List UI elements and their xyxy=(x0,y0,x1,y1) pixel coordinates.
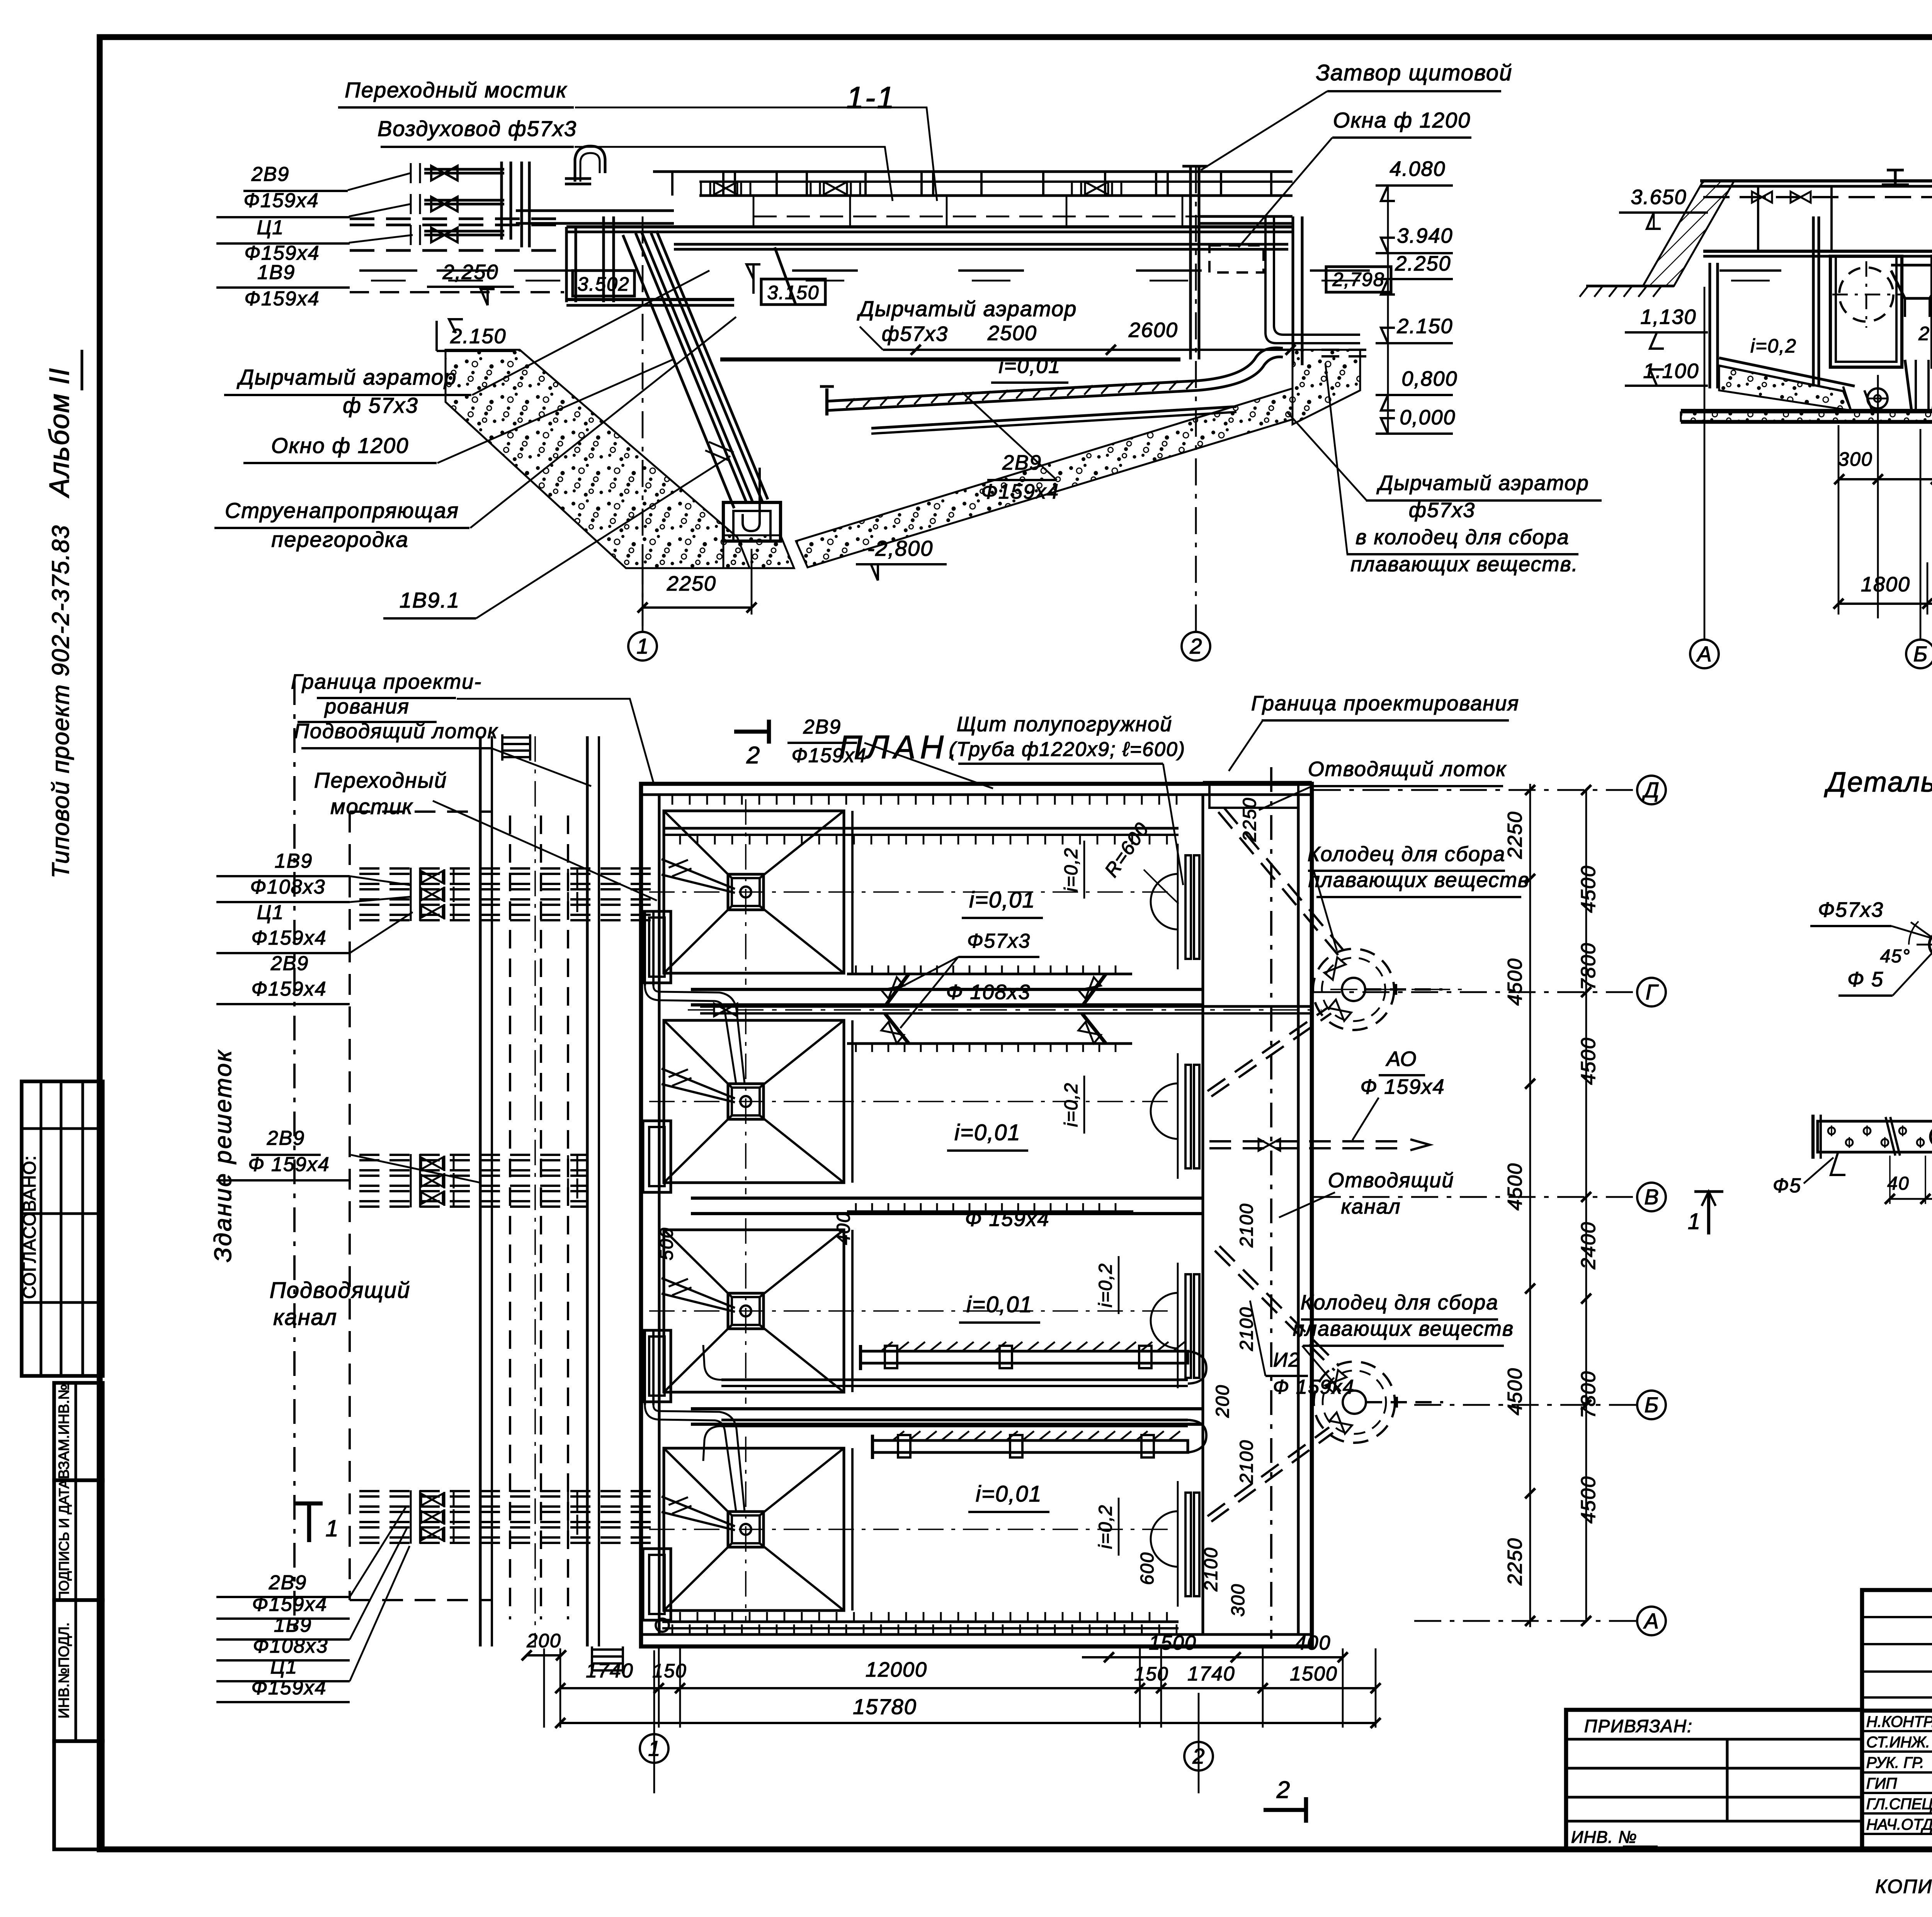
svg-text:2100: 2100 xyxy=(1201,1547,1221,1592)
extension lines bottom xyxy=(543,1648,545,1728)
left basin wall xyxy=(1708,263,1711,388)
dashed window rect xyxy=(1209,245,1264,272)
deck joint lines xyxy=(753,196,755,227)
concrete stipple underfloor band xyxy=(796,388,1293,567)
manifold risers xyxy=(500,162,503,240)
svg-text:3.150: 3.150 xyxy=(767,282,819,303)
axis circle А xyxy=(1690,640,1719,668)
dash-dot design boundary left xyxy=(293,680,296,1639)
bar feet xyxy=(1831,1152,1845,1175)
inlet valve manifold xyxy=(411,163,420,183)
funnel center box xyxy=(728,1512,764,1547)
leader переходный мостик plan xyxy=(433,801,657,901)
svg-text:Переходный: Переходный xyxy=(314,768,447,792)
svg-text:Ф5: Ф5 xyxy=(1773,1175,1801,1197)
section mark 2 top xyxy=(734,730,769,734)
polupogruzhnoy shields 2-2 xyxy=(1812,216,1815,386)
walkway deck top rail xyxy=(653,170,1293,173)
svg-text:600: 600 xyxy=(1137,1552,1158,1585)
svg-text:300: 300 xyxy=(1228,1583,1248,1617)
svg-text:150: 150 xyxy=(1134,1663,1168,1685)
svg-text:2.150: 2.150 xyxy=(450,325,506,348)
svg-text:i=0,01: i=0,01 xyxy=(954,1120,1021,1145)
right outlet box walls xyxy=(1291,216,1294,365)
funnel centerlines xyxy=(649,1310,1175,1312)
svg-text:7800: 7800 xyxy=(1577,942,1600,990)
svg-text:i=0,2: i=0,2 xyxy=(1061,1082,1082,1127)
svg-text:2,250: 2,250 xyxy=(442,260,498,284)
svg-text:1В9: 1В9 xyxy=(257,261,296,284)
water dashes right box xyxy=(1310,269,1370,272)
svg-text:2250: 2250 xyxy=(1504,811,1526,859)
rollers xyxy=(1867,388,1888,409)
svg-text:ИНВ. №: ИНВ. № xyxy=(1571,1828,1637,1847)
concrete stipple left wedge xyxy=(446,350,750,568)
svg-text:канал: канал xyxy=(1341,1195,1401,1218)
axis circle Б xyxy=(1906,640,1932,668)
pipe bundles left xyxy=(359,873,659,875)
bottom inner pipe xyxy=(662,1620,1179,1623)
svg-text:0,800: 0,800 xyxy=(1401,367,1458,390)
wall ticks bottom xyxy=(672,1624,673,1634)
deck pipes and valves 2-2 xyxy=(1703,196,1932,198)
svg-text:Граница проектирования: Граница проектирования xyxy=(1251,692,1519,715)
left stamp box ВЗАМ.ИНВ.№ xyxy=(54,1383,103,1480)
railing posts xyxy=(671,172,673,196)
plan axis circle 1 xyxy=(653,1650,655,1793)
wall crossing flanges xyxy=(568,1491,577,1512)
svg-text:плавающих веществ: плавающих веществ xyxy=(1293,1317,1514,1340)
left stamp box empty xyxy=(54,1741,103,1849)
right outlet down pipe xyxy=(1265,216,1360,343)
elevation box 2,798 xyxy=(1326,267,1391,292)
svg-text:Дырчатый аэратор: Дырчатый аэратор xyxy=(1376,472,1589,495)
svg-text:4500: 4500 xyxy=(1504,1163,1526,1210)
svg-text:2.250: 2.250 xyxy=(1395,252,1451,275)
svg-text:2500: 2500 xyxy=(987,322,1037,345)
svg-text:2400: 2400 xyxy=(1577,1221,1600,1270)
stipple left slope 1 xyxy=(1719,366,1851,410)
svg-text:1: 1 xyxy=(648,1736,660,1760)
brush pipe ch4 xyxy=(872,1440,1188,1452)
svg-text:200: 200 xyxy=(1918,323,1932,344)
feed pipe into funnel xyxy=(662,1278,735,1308)
walkway deck line 2 xyxy=(699,194,1293,197)
leader to aerator xyxy=(472,271,709,395)
valve cluster xyxy=(411,1154,420,1173)
inlet channel left wall xyxy=(565,227,568,302)
outlet chute diagonals to well 1 xyxy=(1218,812,1338,955)
svg-text:1800: 1800 xyxy=(1861,573,1910,596)
leader to air duct xyxy=(575,147,893,201)
deck mid line xyxy=(699,180,1293,183)
svg-text:Ф57х3: Ф57х3 xyxy=(967,930,1031,952)
svg-text:Колодец для сбора: Колодец для сбора xyxy=(1301,1291,1499,1314)
svg-text:1500: 1500 xyxy=(1149,1632,1197,1654)
svg-text:4500: 4500 xyxy=(1577,865,1600,913)
svg-text:i=0,01: i=0,01 xyxy=(976,1481,1042,1507)
svg-text:1-1: 1-1 xyxy=(846,80,896,115)
svg-text:Ф159х4: Ф159х4 xyxy=(791,744,867,767)
axis circle Г xyxy=(1637,978,1666,1006)
funnel centerlines xyxy=(649,1101,1175,1102)
leader to walkway xyxy=(575,107,937,201)
svg-text:40: 40 xyxy=(1887,1173,1909,1194)
svg-text:1,130: 1,130 xyxy=(1640,305,1696,329)
central pier xyxy=(1905,360,1932,410)
valve cluster xyxy=(411,1490,420,1509)
feed pipe into funnel xyxy=(662,1496,735,1526)
svg-text:2100: 2100 xyxy=(1236,1307,1257,1352)
axis circle 1 xyxy=(628,632,657,661)
mostik slab left extension xyxy=(516,209,674,212)
dim chain vertical 2 xyxy=(1585,790,1587,1621)
aerator foot pipe ch1 xyxy=(847,972,1132,975)
svg-text:2В9: 2В9 xyxy=(251,163,290,186)
svg-text:Ф159х4: Ф159х4 xyxy=(251,978,327,1000)
water level dashes left xyxy=(359,269,417,272)
svg-text:Струенапропряющая: Струенапропряющая xyxy=(225,498,459,523)
svg-text:300: 300 xyxy=(1838,448,1872,470)
axis lines horizontal right xyxy=(1314,789,1637,791)
aerator pipe cross-section xyxy=(1929,932,1932,957)
funnel center box xyxy=(728,1084,764,1119)
riser tee symbols xyxy=(1882,183,1909,186)
axis lines 2-2 xyxy=(1704,287,1706,640)
ladder symbol top xyxy=(502,736,530,739)
svg-text:ГЛ.СПЕЦ.: ГЛ.СПЕЦ. xyxy=(1866,1796,1932,1813)
leader подводящий лоток xyxy=(492,748,591,786)
chute slab lines xyxy=(623,235,734,508)
svg-text:мостик: мостик xyxy=(330,794,413,819)
svg-text:ПОДПИСЬ И ДАТА: ПОДПИСЬ И ДАТА xyxy=(56,1479,72,1601)
aerator head pipe ch2 xyxy=(847,1042,1132,1045)
axis circle Б xyxy=(1637,1391,1666,1419)
basin outer walls xyxy=(641,784,1312,1646)
deck slab 2-2 xyxy=(1700,179,1932,182)
break marks on bar xyxy=(1886,1117,1895,1156)
svg-text:i=0,01: i=0,01 xyxy=(966,1292,1033,1317)
svg-text:1: 1 xyxy=(1688,1209,1701,1234)
descending chute pipes xyxy=(636,233,747,504)
svg-text:ГИП: ГИП xyxy=(1866,1775,1897,1792)
svg-text:1В9: 1В9 xyxy=(274,1614,312,1636)
svg-text:2: 2 xyxy=(746,742,760,769)
svg-text:Дырчатый аэратор: Дырчатый аэратор xyxy=(857,296,1077,321)
svg-text:2: 2 xyxy=(1192,1744,1204,1768)
valve cluster xyxy=(411,868,420,886)
svg-text:3.502: 3.502 xyxy=(577,273,629,295)
svg-text:Деталь аэратора: Деталь аэратора xyxy=(1824,767,1932,798)
wall ticks top xyxy=(672,795,673,805)
title block: signature table xyxy=(1862,1590,1932,1849)
pipe АО xyxy=(1209,1147,1406,1149)
svg-text:СОГЛАСОВАНО:: СОГЛАСОВАНО: xyxy=(19,1155,39,1299)
svg-text:2В9: 2В9 xyxy=(270,952,309,975)
svg-text:Ц1: Ц1 xyxy=(257,901,284,924)
svg-text:12000: 12000 xyxy=(866,1658,927,1681)
svg-text:ПРИВЯЗАН:: ПРИВЯЗАН: xyxy=(1584,1716,1693,1736)
svg-text:в колодец для сбора: в колодец для сбора xyxy=(1355,526,1569,549)
U-bend pipe in sump xyxy=(743,468,760,531)
svg-text:2250: 2250 xyxy=(1504,1537,1526,1586)
floor pipe below xyxy=(871,407,1236,428)
left berm 1 xyxy=(1843,386,1872,410)
svg-text:канал: канал xyxy=(273,1305,337,1330)
mini ladder below basin xyxy=(592,1648,623,1651)
left stamp box ПОДПИСЬ И ДАТА xyxy=(54,1480,103,1600)
concrete stipple under sump xyxy=(723,535,794,568)
svg-text:Дырчатый аэратор: Дырчатый аэратор xyxy=(236,365,457,389)
dim chain vertical 1 xyxy=(1529,784,1531,1627)
section mark T1 xyxy=(296,1502,323,1506)
leader перегородка xyxy=(470,317,736,528)
svg-text:ИНВ.№ПОДЛ.: ИНВ.№ПОДЛ. xyxy=(56,1622,72,1719)
svg-text:Ф 108х3: Ф 108х3 xyxy=(946,981,1031,1004)
svg-text:1В9: 1В9 xyxy=(275,850,313,872)
svg-text:Ф 159х4: Ф 159х4 xyxy=(248,1153,330,1176)
svg-text:2100: 2100 xyxy=(1236,1203,1257,1248)
plan axis circle 2 xyxy=(1198,1693,1200,1793)
svg-text:Б: Б xyxy=(1645,1393,1658,1417)
inlet channel floor xyxy=(566,298,734,301)
floor left cap xyxy=(825,388,828,415)
water level marks basin xyxy=(792,269,858,272)
svg-text:i=0,2: i=0,2 xyxy=(1095,1263,1116,1307)
svg-text:Переходный мостик: Переходный мостик xyxy=(345,78,567,102)
svg-text:Ф108х3: Ф108х3 xyxy=(250,876,325,898)
hanging gate boxes with windows xyxy=(1830,256,1902,367)
svg-text:РУК. ГР.: РУК. ГР. xyxy=(1866,1754,1924,1771)
svg-text:Подводящий лоток: Подводящий лоток xyxy=(294,720,498,743)
svg-text:Ф159х4: Ф159х4 xyxy=(981,480,1059,503)
svg-text:200: 200 xyxy=(526,1630,561,1651)
svg-text:i=0,2: i=0,2 xyxy=(1750,335,1797,357)
svg-text:Здание решеток: Здание решеток xyxy=(210,1049,236,1262)
air main dash line xyxy=(753,216,1271,218)
45 deg arcs xyxy=(1909,921,1918,945)
svg-text:ВЗАМ.ИНВ.№: ВЗАМ.ИНВ.№ xyxy=(56,1384,72,1479)
svg-text:Затвор щитовой: Затвор щитовой xyxy=(1316,60,1513,85)
leader граница to basin xyxy=(457,699,654,784)
svg-text:Щит полупогружной: Щит полупогружной xyxy=(957,713,1172,736)
svg-text:7800: 7800 xyxy=(1577,1371,1600,1418)
svg-text:400: 400 xyxy=(1295,1632,1331,1654)
svg-text:2В9: 2В9 xyxy=(803,716,842,738)
concrete stipple right block xyxy=(1293,350,1360,424)
svg-text:ф57х3: ф57х3 xyxy=(882,322,948,346)
chute flange xyxy=(705,442,734,461)
svg-text:3.650: 3.650 xyxy=(1631,186,1687,209)
R=600 gates right side xyxy=(1151,874,1179,930)
svg-text:4500: 4500 xyxy=(1504,1367,1526,1415)
svg-text:Ц1: Ц1 xyxy=(270,1656,298,1678)
wall crossing flanges xyxy=(568,869,577,889)
channel divider walls xyxy=(691,988,1203,991)
wall crossing flanges xyxy=(568,1155,577,1175)
svg-text:4500: 4500 xyxy=(1577,1476,1600,1524)
svg-text:2.150: 2.150 xyxy=(1396,315,1453,338)
svg-text:Воздуховод ф57х3: Воздуховод ф57х3 xyxy=(378,116,577,141)
svg-text:А: А xyxy=(1643,1609,1658,1633)
svg-text:Г: Г xyxy=(1646,980,1659,1004)
left stamp box ИНВ.№ПОДЛ. xyxy=(54,1600,103,1741)
outlet dashed pipe to well xyxy=(1321,349,1376,351)
svg-text:ф 57х3: ф 57х3 xyxy=(343,393,418,417)
svg-text:Ф159х4: Ф159х4 xyxy=(244,288,320,310)
funnel center box xyxy=(728,1293,764,1329)
svg-text:Типовой проект 902-2-375.83: Типовой проект 902-2-375.83 xyxy=(48,524,74,878)
building dashed wall xyxy=(349,812,351,1600)
goose-neck vent pipe xyxy=(575,146,605,182)
axis circle А xyxy=(1637,1607,1666,1635)
svg-text:Ф159х4: Ф159х4 xyxy=(251,1677,327,1699)
svg-text:400: 400 xyxy=(833,1212,854,1245)
axis circle 2 xyxy=(1182,632,1210,661)
svg-text:1500: 1500 xyxy=(1290,1663,1338,1685)
right gate slot xyxy=(1189,166,1192,359)
svg-text:2600: 2600 xyxy=(1128,318,1178,342)
inlet pipes dashed xyxy=(350,217,565,220)
svg-text:рования: рования xyxy=(324,695,410,718)
svg-text:НАЧ.ОТД.: НАЧ.ОТД. xyxy=(1866,1816,1932,1833)
svg-text:Окна ф 1200: Окна ф 1200 xyxy=(1333,108,1471,132)
svg-text:i=0,2: i=0,2 xyxy=(1061,847,1082,892)
basin floor line xyxy=(720,358,1180,362)
svg-text:2: 2 xyxy=(1189,634,1202,658)
funnel center box xyxy=(728,874,764,910)
svg-text:1: 1 xyxy=(636,634,648,658)
deck joints xyxy=(1757,186,1759,251)
funnel between gate boxes 1 xyxy=(1891,271,1932,298)
svg-text:Ф 159х4: Ф 159х4 xyxy=(965,1207,1049,1231)
svg-text:Ф159х4: Ф159х4 xyxy=(243,189,319,212)
leader lines to manifold xyxy=(348,173,410,190)
svg-text:15780: 15780 xyxy=(853,1694,917,1719)
building double wall xyxy=(479,736,481,1646)
outlet diagonals to well 2 xyxy=(1215,1251,1335,1371)
axis line 2 xyxy=(1195,166,1197,632)
svg-text:0,000: 0,000 xyxy=(1400,406,1456,429)
right elevation stack xyxy=(1387,186,1389,434)
axis circle Д xyxy=(1637,776,1666,804)
svg-text:АО: АО xyxy=(1386,1047,1417,1071)
svg-text:И2: И2 xyxy=(1273,1349,1300,1371)
window dashed circles 2-2 xyxy=(1839,267,1893,322)
svg-text:В: В xyxy=(1644,1185,1658,1209)
elevation box 3.502 xyxy=(573,271,634,296)
left stamp table СОГЛАСОВАНО xyxy=(22,1081,103,1376)
svg-text:1740: 1740 xyxy=(1187,1663,1235,1685)
view arrow 1 left xyxy=(1707,1192,1710,1234)
svg-text:КОПИРОВАЛ: ЛОГИНОВА: КОПИРОВАЛ: ЛОГИНОВА xyxy=(1875,1876,1932,1897)
gate boxes on left wall xyxy=(643,911,671,983)
well 1 xyxy=(1313,949,1394,1030)
funnels with X diagonals xyxy=(664,811,844,973)
sump box xyxy=(723,502,781,541)
svg-text:4.080: 4.080 xyxy=(1389,157,1446,180)
svg-text:4500: 4500 xyxy=(1504,958,1526,1006)
dashed boundary line vertical in plan xyxy=(1270,767,1272,1639)
svg-text:Ф159х4: Ф159х4 xyxy=(252,1593,327,1616)
svg-text:i=0,01: i=0,01 xyxy=(969,887,1036,913)
svg-text:2: 2 xyxy=(1276,1777,1291,1803)
top outlet box xyxy=(1203,781,1312,783)
funnel centerlines xyxy=(649,891,1175,893)
svg-text:2250: 2250 xyxy=(667,572,716,595)
svg-text:Б: Б xyxy=(1913,642,1927,666)
central pipe Ф108х3 ch1-2 xyxy=(700,1005,1312,1008)
perforated sloped floor xyxy=(827,381,1198,401)
svg-text:Ц1: Ц1 xyxy=(257,216,284,239)
svg-text:1: 1 xyxy=(325,1515,339,1541)
svg-text:2В9: 2В9 xyxy=(1002,451,1042,474)
pipes running down the inlet channel xyxy=(509,815,511,1619)
svg-text:плавающих веществ.: плавающих веществ. xyxy=(1350,553,1578,576)
svg-text:Ф159х4: Ф159х4 xyxy=(251,927,327,949)
walkway slab xyxy=(566,225,1293,228)
svg-text:Д: Д xyxy=(1641,778,1659,802)
well 2 xyxy=(1314,1362,1395,1443)
svg-text:150: 150 xyxy=(652,1660,687,1682)
svg-text:i=0,2: i=0,2 xyxy=(1095,1504,1116,1549)
svg-text:2В9: 2В9 xyxy=(267,1127,305,1149)
axis line 1 xyxy=(642,216,644,632)
air main valves on deck xyxy=(714,182,737,195)
svg-text:(Труба ф1220х9; ℓ=600): (Труба ф1220х9; ℓ=600) xyxy=(949,738,1186,761)
svg-text:перегородка: перегородка xyxy=(271,527,408,552)
brush pipe ch3 xyxy=(861,1351,1188,1363)
svg-text:Подводящий: Подводящий xyxy=(270,1278,411,1303)
left bank hatch xyxy=(1643,181,1734,286)
svg-text:Ф108х3: Ф108х3 xyxy=(253,1635,328,1657)
svg-text:2100: 2100 xyxy=(1236,1440,1257,1485)
feed pipe into funnel xyxy=(662,1069,735,1098)
inlet channel right wall xyxy=(602,216,605,302)
svg-text:2250: 2250 xyxy=(1240,797,1260,842)
elevation box 3.150 xyxy=(761,279,825,305)
water level 2-2 xyxy=(1719,269,1781,272)
dim line aerator xyxy=(916,349,1291,351)
svg-text:Ф 159х4: Ф 159х4 xyxy=(1360,1075,1445,1098)
svg-text:А: А xyxy=(1696,642,1711,666)
svg-text:Отводящий: Отводящий xyxy=(1328,1169,1454,1192)
svg-text:Отводящий лоток: Отводящий лоток xyxy=(1308,758,1507,781)
svg-text:45°: 45° xyxy=(1880,946,1911,967)
branch diagonals with valves xyxy=(885,974,909,1006)
left basin floor slope 1 xyxy=(1719,358,1855,386)
svg-text:2В9: 2В9 xyxy=(269,1571,307,1594)
svg-text:Альбом II: Альбом II xyxy=(44,368,75,498)
svg-text:СТ.ИНЖ.: СТ.ИНЖ. xyxy=(1866,1734,1930,1751)
svg-text:500: 500 xyxy=(656,1227,677,1260)
holes row xyxy=(1828,1127,1835,1134)
П-loop pipes to even channels xyxy=(644,911,646,986)
svg-text:-2,800: -2,800 xyxy=(867,536,934,560)
svg-text:Колодец для сбора: Колодец для сбора xyxy=(1308,843,1506,866)
aerator bar side view xyxy=(1818,1121,1932,1152)
left ground line xyxy=(1586,284,1674,287)
svg-text:200: 200 xyxy=(1213,1384,1233,1418)
svg-text:Ф 5: Ф 5 xyxy=(1847,968,1884,991)
svg-text:4500: 4500 xyxy=(1577,1037,1600,1085)
svg-text:плавающих веществ: плавающих веществ xyxy=(1308,868,1529,892)
bottom slab left half xyxy=(1681,409,1932,412)
svg-text:ф57х3: ф57х3 xyxy=(1409,499,1475,522)
feed pipe into funnel xyxy=(662,859,735,889)
coupling circle xyxy=(1930,1127,1932,1147)
leader окна xyxy=(437,359,673,463)
